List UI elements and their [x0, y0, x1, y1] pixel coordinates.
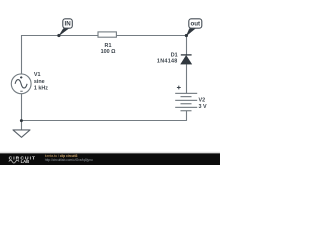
diode D1 triangle — [181, 56, 192, 65]
battery V2 short plate 1 — [181, 96, 192, 97]
battery V2 long plate 2 — [175, 100, 197, 101]
resistor R1 body — [98, 32, 116, 37]
wire: bottom horizontal — [21, 120, 187, 122]
diode D1 cathode bar — [181, 54, 192, 56]
battery V2 short plate 2 — [181, 103, 192, 104]
svg-text:1 kHz: 1 kHz — [34, 86, 48, 92]
source V1 plus mark — [20, 76, 22, 78]
svg-text:LAB: LAB — [21, 159, 30, 164]
wire: top horizontal right segment — [116, 35, 187, 37]
svg-text:IN: IN — [65, 21, 72, 28]
wire: right vertical from top corner to diode cathode — [186, 35, 188, 55]
battery V2 short plate 3 — [181, 110, 192, 111]
source V1 sine wave — [15, 80, 27, 88]
node out flag leader — [186, 29, 195, 36]
junction dot at IN — [57, 34, 60, 37]
node IN box — [63, 19, 73, 28]
junction dot at out corner — [185, 34, 188, 37]
svg-text:V2: V2 — [199, 98, 206, 104]
svg-text:out: out — [190, 21, 200, 28]
svg-text:http://circuitlab.com/c/f2ve/l: http://circuitlab.com/c/f2ve/lq8jynu — [45, 158, 93, 162]
svg-text:3 V: 3 V — [199, 104, 207, 110]
wire: top horizontal left segment — [21, 35, 98, 37]
battery V2 long plate 1 — [175, 93, 197, 94]
svg-text:sine: sine — [34, 79, 45, 85]
wire: battery bottom stub — [186, 111, 188, 121]
svg-text:1N4148: 1N4148 — [157, 58, 178, 64]
ground symbol — [13, 130, 30, 137]
svg-text:V1: V1 — [34, 72, 41, 78]
node out box — [189, 19, 202, 28]
junction dot at ground node — [20, 119, 23, 122]
footer bar — [0, 151, 220, 165]
battery V2 plus sign — [177, 86, 181, 90]
svg-text:100 Ω: 100 Ω — [101, 49, 116, 55]
wire: right vertical from diode anode to battery top — [186, 64, 188, 93]
source V1 circle — [11, 74, 31, 94]
wire: left vertical from V1 bottom to ground — [21, 94, 23, 130]
wire: left vertical from top corner to V1 top — [21, 35, 23, 74]
node IN flag leader — [59, 29, 69, 36]
battery V2 long plate 3 — [175, 107, 197, 108]
source V1 minus mark — [20, 90, 22, 92]
footer logo sine squiggle — [9, 160, 19, 163]
